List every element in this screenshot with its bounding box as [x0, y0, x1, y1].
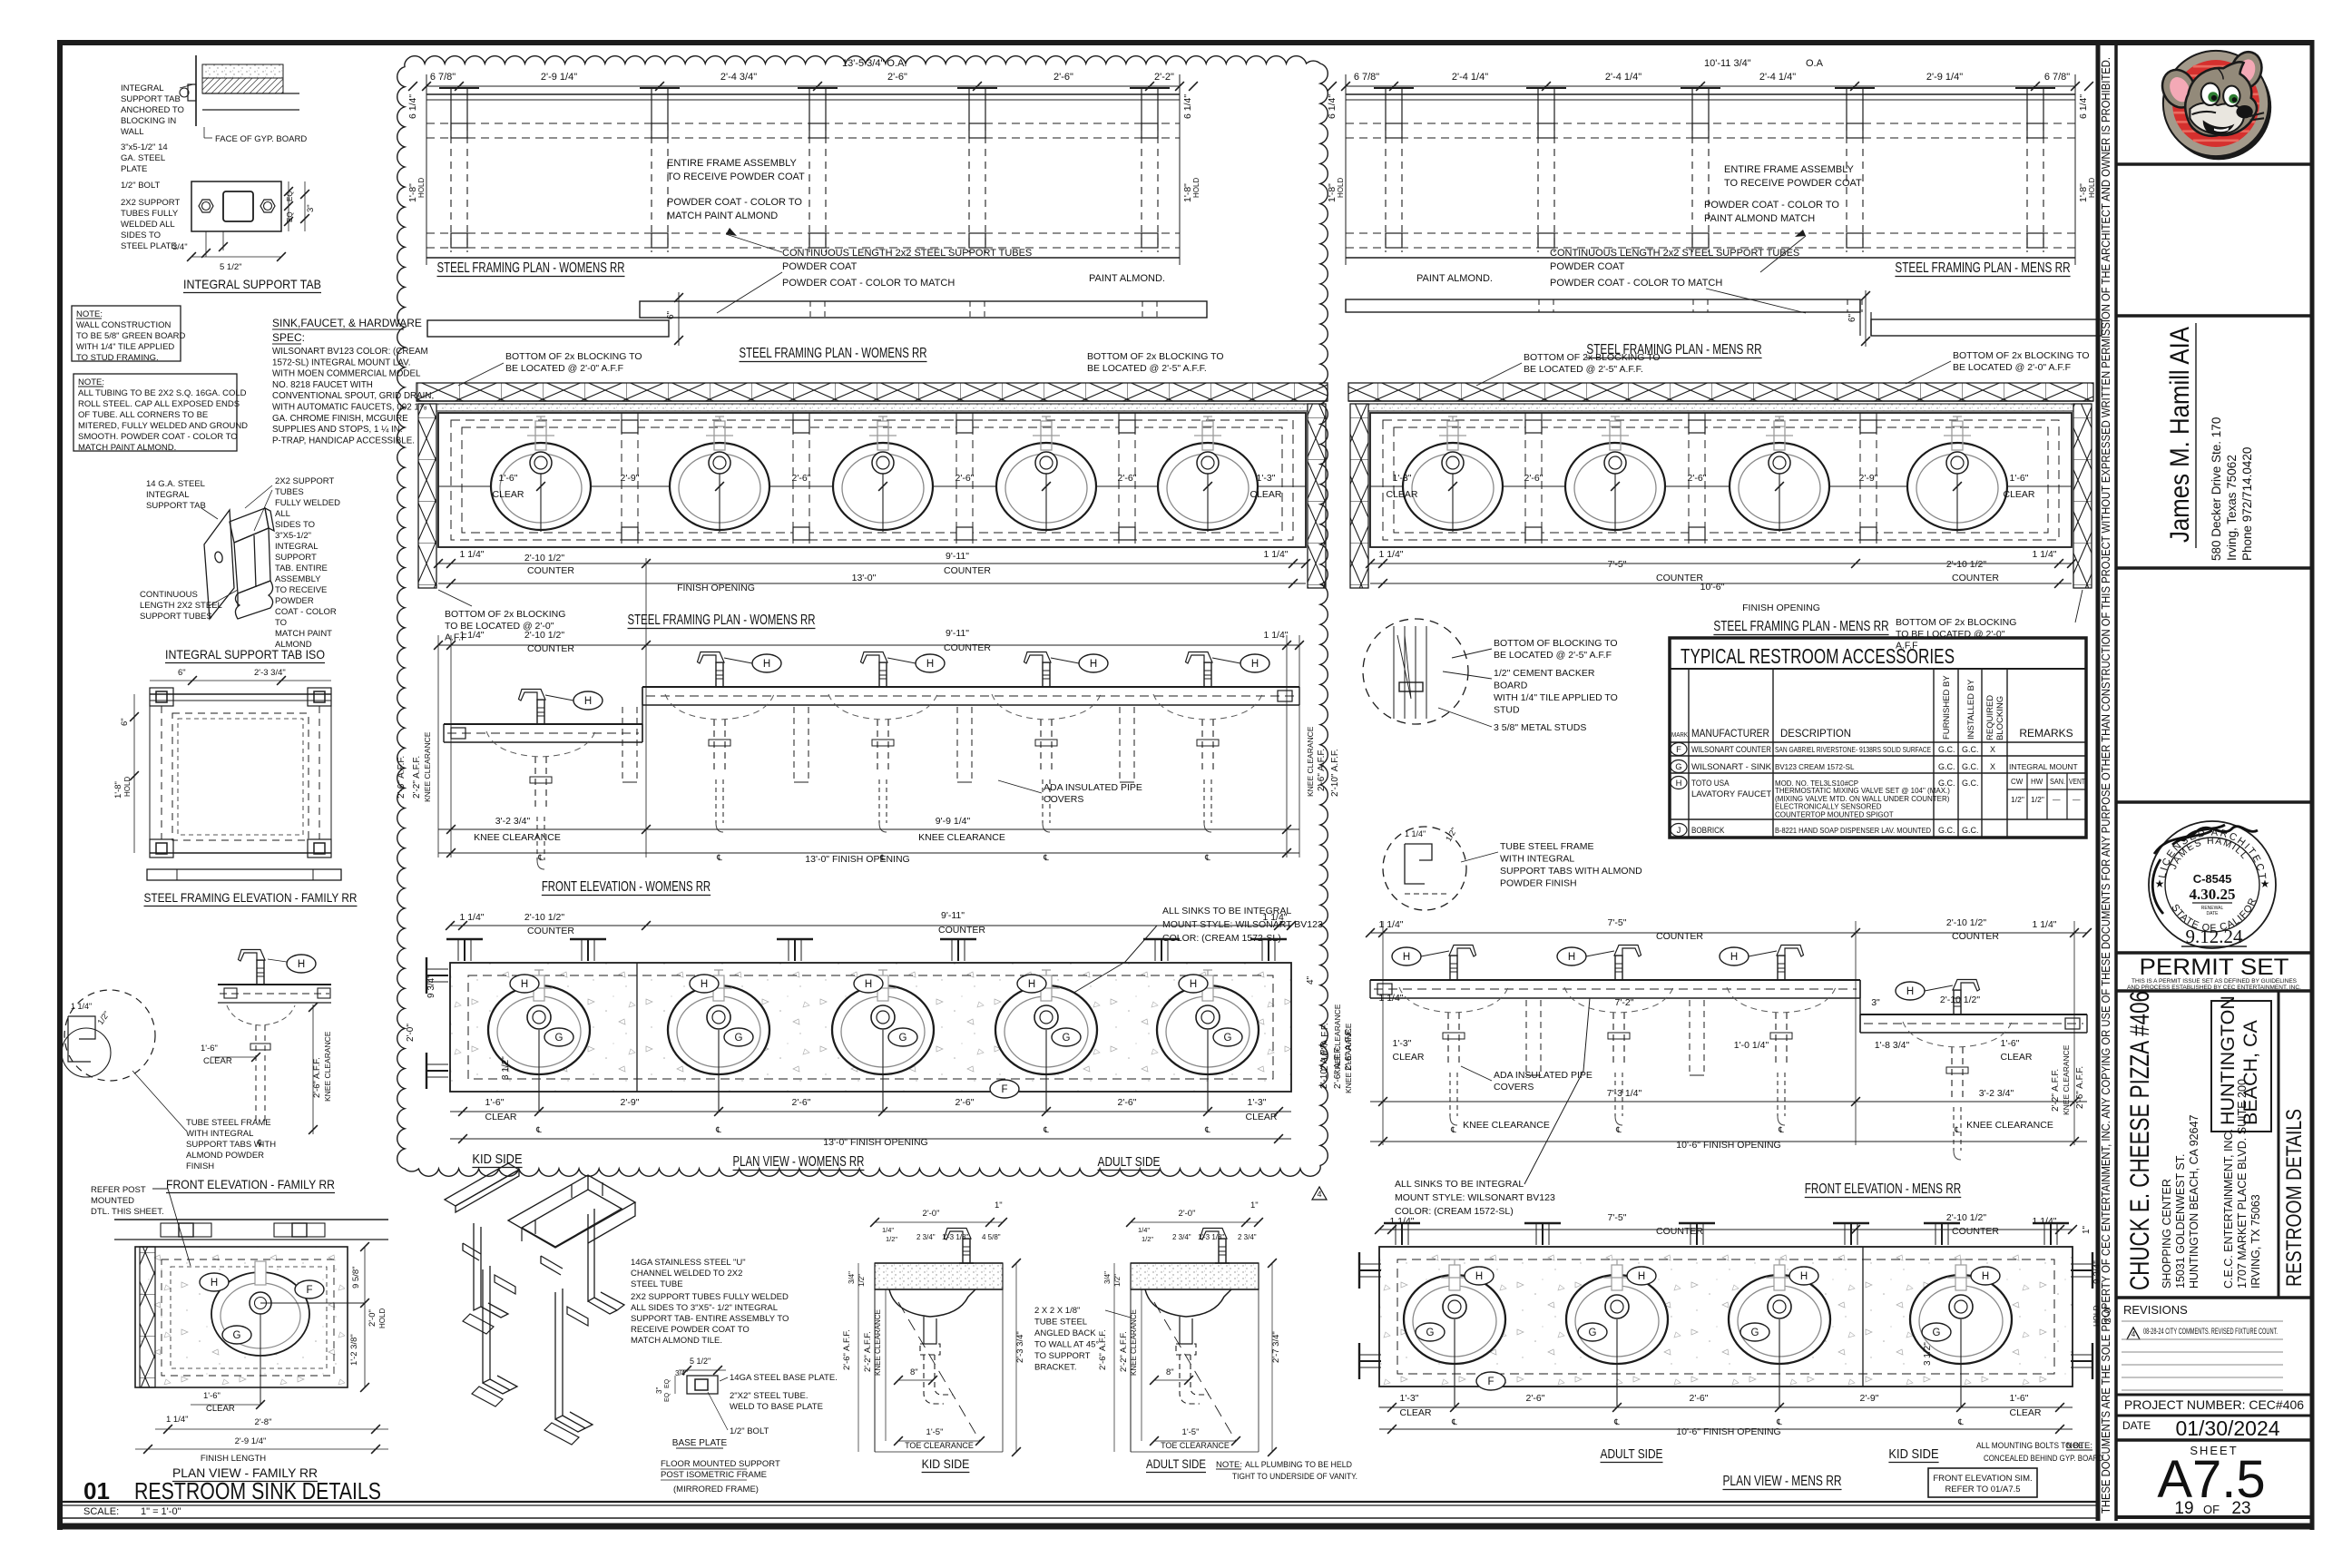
- svg-text:G: G: [1426, 1328, 1435, 1338]
- svg-text:KNEE CLEARANCE: KNEE CLEARANCE: [918, 832, 1005, 843]
- svg-text:01: 01: [83, 1477, 110, 1504]
- svg-text:℄: ℄: [1957, 1417, 1964, 1426]
- svg-text:ASSEMBLY: ASSEMBLY: [275, 574, 321, 584]
- svg-text:COUNTER: COUNTER: [944, 565, 991, 576]
- svg-text:PLAN VIEW - MENS RR: PLAN VIEW - MENS RR: [1722, 1474, 1841, 1489]
- svg-text:WITH MOEN COMMERCIAL MODEL: WITH MOEN COMMERCIAL MODEL: [272, 369, 421, 379]
- svg-text:COUNTER: COUNTER: [938, 925, 985, 936]
- svg-text:★: ★: [2260, 877, 2270, 890]
- svg-text:VENT: VENT: [2069, 778, 2085, 786]
- svg-text:COUNTER: COUNTER: [1656, 573, 1703, 583]
- svg-text:PLAN VIEW - FAMILY RR: PLAN VIEW - FAMILY RR: [172, 1465, 318, 1480]
- svg-text:1 1/4": 1 1/4": [459, 912, 484, 923]
- svg-text:HOLD: HOLD: [123, 777, 132, 797]
- svg-text:580 Decker Drive Ste. 170: 580 Decker Drive Ste. 170: [2210, 417, 2223, 561]
- svg-text:REFER TO 01/A7.5: REFER TO 01/A7.5: [1945, 1485, 2020, 1494]
- svg-text:CLEAR: CLEAR: [2003, 489, 2034, 500]
- svg-text:BOTTOM OF 2x BLOCKING TO: BOTTOM OF 2x BLOCKING TO: [1524, 352, 1661, 363]
- svg-text:H: H: [1090, 659, 1097, 670]
- svg-text:SCALE:: SCALE:: [83, 1506, 119, 1517]
- svg-text:G: G: [735, 1033, 743, 1044]
- svg-text:4.30.25: 4.30.25: [2190, 886, 2236, 903]
- svg-text:6 1/4": 6 1/4": [1327, 94, 1338, 119]
- svg-text:1": 1": [2082, 1225, 2092, 1234]
- svg-text:REQUIRED: REQUIRED: [1985, 695, 1995, 740]
- svg-text:FRONT ELEVATION - MENS RR: FRONT ELEVATION - MENS RR: [1805, 1181, 1962, 1197]
- svg-text:BLOCKING IN: BLOCKING IN: [121, 116, 176, 126]
- svg-text:℄: ℄: [535, 1125, 542, 1134]
- svg-text:COUNTER: COUNTER: [1952, 573, 1999, 583]
- svg-text:BE LOCATED @ 2'-0" A.F.F: BE LOCATED @ 2'-0" A.F.F: [505, 363, 623, 374]
- svg-text:CLEAR: CLEAR: [203, 1056, 232, 1066]
- svg-text:2 3/4": 2 3/4": [1238, 1233, 1257, 1241]
- svg-text:KID SIDE: KID SIDE: [922, 1457, 970, 1471]
- svg-text:STEEL FRAMING PLAN - WOMENS RR: STEEL FRAMING PLAN - WOMENS RR: [437, 260, 625, 276]
- svg-text:CONCEALED BEHIND GYP. BOARD: CONCEALED BEHIND GYP. BOARD: [1984, 1454, 2103, 1464]
- svg-text:CLEAR: CLEAR: [1399, 1407, 1431, 1418]
- svg-text:9.12.24: 9.12.24: [2186, 926, 2244, 947]
- svg-text:NOTE:: NOTE:: [2066, 1441, 2092, 1451]
- svg-text:1 1/4": 1 1/4": [1378, 993, 1403, 1004]
- svg-text:1'-6": 1'-6": [201, 1044, 218, 1053]
- svg-text:2 3/4": 2 3/4": [1172, 1233, 1191, 1241]
- svg-text:H: H: [1676, 779, 1682, 789]
- svg-text:LAVATORY FAUCET: LAVATORY FAUCET: [1691, 789, 1771, 799]
- svg-text:INTEGRAL: INTEGRAL: [146, 490, 190, 500]
- svg-text:EQ: EQ: [664, 1392, 671, 1402]
- svg-text:G: G: [1063, 1033, 1071, 1044]
- svg-text:℄: ℄: [1451, 1417, 1457, 1426]
- svg-text:KID SIDE: KID SIDE: [472, 1151, 522, 1167]
- svg-text:19: 19: [2174, 1499, 2193, 1518]
- svg-text:3 1/2": 3 1/2": [1923, 1342, 1933, 1366]
- svg-text:MOUNT STYLE: WILSONART BV123: MOUNT STYLE: WILSONART BV123: [1162, 919, 1323, 930]
- svg-text:KNEE CLEARANCE: KNEE CLEARANCE: [2062, 1044, 2071, 1115]
- svg-text:2'-3 3/4": 2'-3 3/4": [1015, 1331, 1025, 1363]
- svg-text:DATE: DATE: [2122, 1419, 2151, 1432]
- svg-text:2'-10 1/2": 2'-10 1/2": [524, 630, 565, 641]
- svg-text:1707 MARKET PLACE BLVD. SUITE: 1707 MARKET PLACE BLVD. SUITE 200: [2236, 1079, 2249, 1289]
- svg-text:H: H: [1251, 659, 1259, 670]
- svg-text:9 3/4": 9 3/4": [2092, 1260, 2102, 1284]
- svg-text:COVERS: COVERS: [1494, 1082, 1534, 1093]
- svg-text:2'-10" A.F.F.: 2'-10" A.F.F.: [1320, 1023, 1330, 1071]
- svg-text:CLEAR: CLEAR: [206, 1404, 235, 1414]
- svg-text:3 5/8" METAL STUDS: 3 5/8" METAL STUDS: [1494, 722, 1586, 733]
- svg-text:2'-6": 2'-6": [792, 1097, 811, 1108]
- svg-text:H: H: [1638, 1271, 1645, 1282]
- svg-text:ADULT SIDE: ADULT SIDE: [1098, 1154, 1161, 1170]
- svg-text:01/30/2024: 01/30/2024: [2175, 1416, 2279, 1440]
- svg-text:3": 3": [306, 204, 316, 212]
- svg-text:CHUCK E. CHEESE PIZZA #406: CHUCK E. CHEESE PIZZA #406: [2125, 991, 2155, 1290]
- svg-text:2'-6" A.F.F.: 2'-6" A.F.F.: [1344, 1028, 1354, 1071]
- svg-text:2'-6": 2'-6": [887, 72, 907, 83]
- svg-text:4": 4": [1306, 975, 1316, 985]
- svg-text:13'-5 3/4" O.A.: 13'-5 3/4" O.A.: [842, 58, 906, 69]
- svg-text:COAT - COLOR: COAT - COLOR: [275, 607, 337, 617]
- svg-text:7'-5": 7'-5": [1608, 559, 1627, 570]
- svg-text:2'-6" A.F.F.: 2'-6" A.F.F.: [842, 1329, 852, 1370]
- svg-text:1 1/4": 1 1/4": [1405, 829, 1426, 838]
- svg-text:INTEGRAL: INTEGRAL: [275, 542, 318, 552]
- svg-text:BOTTOM OF 2x BLOCKING: BOTTOM OF 2x BLOCKING: [1896, 617, 2016, 628]
- svg-text:9'-11": 9'-11": [941, 910, 965, 921]
- svg-text:ALL SIDES TO 3"X5"- 1/2" INTEG: ALL SIDES TO 3"X5"- 1/2" INTEGRAL: [631, 1303, 778, 1313]
- svg-text:1/2": 1/2": [2011, 795, 2024, 804]
- svg-text:2'-0": 2'-0": [923, 1209, 940, 1219]
- svg-text:HOLD: HOLD: [417, 178, 426, 198]
- svg-text:2X2 SUPPORT: 2X2 SUPPORT: [121, 198, 180, 208]
- svg-text:IRVING, TX 75063: IRVING, TX 75063: [2249, 1194, 2262, 1289]
- svg-text:2'-4 3/4": 2'-4 3/4": [720, 72, 757, 83]
- svg-text:2X2 SUPPORT: 2X2 SUPPORT: [275, 476, 334, 486]
- svg-text:THESE DOCUMENTS ARE THE SOLE P: THESE DOCUMENTS ARE THE SOLE PROPERTY OF…: [2099, 57, 2112, 1514]
- svg-text:C.E.C. ENTERTAINMENT, INC.: C.E.C. ENTERTAINMENT, INC.: [2222, 1129, 2235, 1289]
- svg-text:6 1/4": 6 1/4": [2078, 94, 2089, 119]
- svg-text:1'-6": 1'-6": [2010, 473, 2029, 484]
- svg-text:STEEL FRAMING PLAN - WOMENS RR: STEEL FRAMING PLAN - WOMENS RR: [740, 346, 927, 361]
- svg-text:TO STUD FRAMING.: TO STUD FRAMING.: [76, 353, 159, 363]
- svg-text:WITH 1/4" TILE APPLIED: WITH 1/4" TILE APPLIED: [76, 342, 174, 352]
- svg-text:(MIRRORED FRAME): (MIRRORED FRAME): [673, 1485, 759, 1494]
- svg-text:4: 4: [1317, 1190, 1321, 1199]
- svg-text:3/4": 3/4": [1103, 1271, 1112, 1284]
- svg-text:KNEE CLEARANCE: KNEE CLEARANCE: [1463, 1120, 1550, 1131]
- svg-text:MANUFACTURER: MANUFACTURER: [1691, 727, 1769, 740]
- svg-text:MITERED, FULLY WELDED AND GROU: MITERED, FULLY WELDED AND GROUND: [78, 421, 248, 431]
- svg-text:MATCH ALMOND TILE.: MATCH ALMOND TILE.: [631, 1336, 722, 1346]
- svg-text:H: H: [1906, 986, 1914, 997]
- svg-text:ALL SINKS TO BE INTEGRAL: ALL SINKS TO BE INTEGRAL: [1395, 1179, 1524, 1190]
- svg-text:6 1/4": 6 1/4": [1182, 94, 1193, 119]
- svg-text:2'-6": 2'-6": [955, 1097, 975, 1108]
- svg-text:℄: ℄: [715, 1125, 721, 1134]
- svg-text:HOLD: HOLD: [1337, 178, 1345, 198]
- svg-text:ENTIRE FRAME ASSEMBLY: ENTIRE FRAME ASSEMBLY: [667, 158, 797, 169]
- svg-text:RECEIVE POWDER COAT TO: RECEIVE POWDER COAT TO: [631, 1325, 750, 1335]
- svg-text:COUNTER: COUNTER: [944, 642, 991, 653]
- svg-text:3": 3": [655, 1387, 663, 1394]
- svg-text:FRONT ELEVATION - FAMILY RR: FRONT ELEVATION - FAMILY RR: [166, 1177, 335, 1191]
- svg-text:PROJECT NUMBER: CEC#406: PROJECT NUMBER: CEC#406: [2124, 1397, 2304, 1412]
- svg-text:1'-3": 1'-3": [1248, 1097, 1267, 1108]
- svg-text:1'-6": 1'-6": [499, 473, 518, 484]
- svg-text:4 5/8": 4 5/8": [982, 1233, 1001, 1241]
- svg-text:CLEAR: CLEAR: [1392, 1052, 1424, 1063]
- svg-text:POWDER COAT - COLOR TO: POWDER COAT - COLOR TO: [667, 197, 802, 208]
- svg-text:2"X2" STEEL TUBE.: 2"X2" STEEL TUBE.: [730, 1391, 808, 1401]
- svg-text:ADULT SIDE: ADULT SIDE: [1601, 1446, 1663, 1462]
- svg-text:BE LOCATED @ 2'-5" A.F.F.: BE LOCATED @ 2'-5" A.F.F.: [1087, 363, 1207, 374]
- svg-text:WITH AUTOMATIC FAUCETS, 002 1⅞: WITH AUTOMATIC FAUCETS, 002 1⅞: [272, 403, 427, 413]
- svg-text:BLOCKING: BLOCKING: [1995, 696, 2005, 740]
- svg-text:1 1/4": 1 1/4": [1378, 919, 1403, 930]
- svg-text:1 1/4": 1 1/4": [1263, 630, 1288, 641]
- svg-text:H: H: [584, 696, 592, 707]
- svg-text:KNEE CLEARANCE: KNEE CLEARANCE: [1333, 1004, 1342, 1074]
- svg-text:GA. CHROME FINISH, MCGUIRE: GA. CHROME FINISH, MCGUIRE: [272, 414, 408, 424]
- svg-text:2'-6": 2'-6": [1053, 72, 1073, 83]
- svg-text:POST ISOMETRIC FRAME: POST ISOMETRIC FRAME: [661, 1470, 767, 1480]
- svg-text:1'-3 1/8": 1'-3 1/8": [1198, 1233, 1224, 1241]
- svg-text:STEEL PLATE.: STEEL PLATE.: [121, 241, 179, 251]
- svg-text:CONTINUOUS LENGTH 2x2 STEEL S: CONTINUOUS LENGTH 2x2 STEEL SUPPORT TUBE…: [782, 248, 1032, 259]
- svg-text:PAINT ALMOND.: PAINT ALMOND.: [1416, 273, 1493, 284]
- svg-text:15031 GOLDENWEST ST.: 15031 GOLDENWEST ST.: [2174, 1154, 2187, 1289]
- svg-text:1'-0 1/4": 1'-0 1/4": [1734, 1040, 1769, 1051]
- svg-text:STEEL FRAMING ELEVATION - FAMI: STEEL FRAMING ELEVATION - FAMILY RR: [144, 891, 358, 905]
- svg-text:CLEAR: CLEAR: [485, 1112, 516, 1122]
- svg-text:BOTTOM OF 2x BLOCKING: BOTTOM OF 2x BLOCKING: [445, 609, 565, 620]
- svg-text:BOTTOM OF 2x BLOCKING TO: BOTTOM OF 2x BLOCKING TO: [1087, 351, 1224, 362]
- svg-text:INTEGRAL MOUNT: INTEGRAL MOUNT: [2009, 762, 2078, 771]
- svg-text:6": 6": [1847, 313, 1857, 322]
- svg-text:POWDER COAT - COLOR TO MATCH: POWDER COAT - COLOR TO MATCH: [782, 278, 955, 289]
- svg-text:FACE OF GYP. BOARD: FACE OF GYP. BOARD: [215, 134, 307, 144]
- svg-text:TUBES: TUBES: [275, 487, 304, 497]
- svg-text:TO RECEIVE: TO RECEIVE: [275, 585, 327, 595]
- svg-text:2'-8": 2'-8": [255, 1417, 272, 1427]
- svg-text:G.C.: G.C.: [1938, 826, 1955, 835]
- svg-text:BOTTOM OF BLOCKING TO: BOTTOM OF BLOCKING TO: [1494, 638, 1618, 649]
- svg-text:7'-5": 7'-5": [1608, 1212, 1627, 1223]
- svg-text:J: J: [1677, 826, 1681, 836]
- svg-text:2'-10 1/2": 2'-10 1/2": [1946, 917, 1987, 928]
- svg-text:RESTROOM DETAILS: RESTROOM DETAILS: [2282, 1109, 2307, 1287]
- svg-text:WELD TO BASE PLATE: WELD TO BASE PLATE: [730, 1402, 823, 1412]
- svg-text:PAINT ALMOND.: PAINT ALMOND.: [1089, 273, 1165, 284]
- svg-text:9'-11": 9'-11": [946, 628, 969, 639]
- svg-text:1/2" CEMENT BACKER: 1/2" CEMENT BACKER: [1494, 668, 1595, 679]
- svg-text:EQ: EQ: [286, 211, 294, 222]
- svg-text:POWDER COAT: POWDER COAT: [1550, 261, 1625, 272]
- svg-text:ALL PLUMBING TO BE HELD: ALL PLUMBING TO BE HELD: [1245, 1460, 1352, 1470]
- svg-text:SUPPORT TABS WITH ALMOND: SUPPORT TABS WITH ALMOND: [1500, 866, 1642, 877]
- svg-text:H: H: [1190, 979, 1197, 990]
- svg-text:℄: ℄: [1954, 1125, 1960, 1134]
- svg-text:OF TUBE. ALL CORNERS TO BE: OF TUBE. ALL CORNERS TO BE: [78, 410, 208, 420]
- svg-text:2'-2": 2'-2": [1154, 72, 1174, 83]
- svg-text:EQ: EQ: [664, 1378, 671, 1388]
- svg-text:℄: ℄: [1613, 1417, 1620, 1426]
- svg-text:ANGLED BACK: ANGLED BACK: [1034, 1328, 1096, 1338]
- svg-text:2'-4 1/4": 2'-4 1/4": [1452, 72, 1488, 83]
- svg-text:CONTINUOUS LENGTH 2x2 STEEL S: CONTINUOUS LENGTH 2x2 STEEL SUPPORT TUBE…: [1550, 248, 1799, 259]
- svg-text:TO WALL AT 45°: TO WALL AT 45°: [1034, 1340, 1099, 1350]
- svg-text:TUBE STEEL FRAME: TUBE STEEL FRAME: [186, 1118, 271, 1128]
- svg-text:TUBE STEEL: TUBE STEEL: [1034, 1318, 1087, 1328]
- svg-text:1": 1": [995, 1200, 1003, 1210]
- svg-text:BRACKET.: BRACKET.: [1034, 1363, 1076, 1373]
- svg-text:2'-6" A.F.F.: 2'-6" A.F.F.: [2075, 1066, 2085, 1109]
- svg-text:WITH 1/4" TILE APPLIED TO: WITH 1/4" TILE APPLIED TO: [1494, 692, 1618, 703]
- svg-text:FURNISHED BY: FURNISHED BY: [1942, 675, 1952, 740]
- svg-text:G: G: [1589, 1328, 1597, 1338]
- svg-text:FULLY WELDED: FULLY WELDED: [275, 498, 340, 508]
- svg-text:FRONT ELEVATION SIM.: FRONT ELEVATION SIM.: [1933, 1474, 2032, 1484]
- svg-text:2'-0": 2'-0": [367, 1309, 377, 1327]
- svg-text:2'-6": 2'-6": [1524, 473, 1543, 484]
- svg-text:2'-6" A.F.F.: 2'-6" A.F.F.: [1098, 1329, 1108, 1370]
- svg-text:G: G: [1751, 1328, 1759, 1338]
- svg-text:H: H: [211, 1278, 218, 1289]
- svg-text:H: H: [763, 659, 770, 670]
- svg-text:G.C.: G.C.: [1938, 762, 1955, 771]
- svg-text:ANCHORED TO: ANCHORED TO: [121, 105, 184, 115]
- svg-text:Phone 972/714.0420: Phone 972/714.0420: [2240, 447, 2254, 561]
- svg-text:(MIXING VALVE MTD. ON WALL UND: (MIXING VALVE MTD. ON WALL UNDER COUNTER…: [1775, 795, 1950, 803]
- svg-text:COUNTERTOP MOUNTED SPIGOT: COUNTERTOP MOUNTED SPIGOT: [1775, 810, 1894, 818]
- svg-text:★: ★: [2155, 877, 2165, 890]
- svg-text:1 1/4": 1 1/4": [1378, 549, 1403, 560]
- svg-text:STEEL FRAMING PLAN - MENS RR: STEEL FRAMING PLAN - MENS RR: [1895, 260, 2070, 276]
- svg-text:2 3/4": 2 3/4": [916, 1233, 936, 1241]
- svg-text:1 1/4": 1 1/4": [2032, 919, 2056, 930]
- svg-text:SUPPORT TAB- ENTIRE ASSEMBLY T: SUPPORT TAB- ENTIRE ASSEMBLY TO: [631, 1314, 789, 1324]
- svg-text:CLEAR: CLEAR: [1249, 489, 1281, 500]
- svg-text:POWDER COAT - COLOR TO MATC: POWDER COAT - COLOR TO MATCH: [1550, 278, 1722, 289]
- svg-text:HOLD: HOLD: [2088, 178, 2096, 198]
- svg-text:BOTTOM OF 2x BLOCKING TO: BOTTOM OF 2x BLOCKING TO: [1953, 350, 2090, 361]
- svg-text:3/4": 3/4": [172, 242, 188, 252]
- svg-text:23: 23: [2231, 1499, 2250, 1518]
- svg-text:H: H: [1475, 1271, 1483, 1282]
- svg-text:X: X: [1990, 762, 1995, 771]
- svg-text:1 1/4": 1 1/4": [1262, 912, 1287, 923]
- svg-text:POWDER COAT - COLOR TO: POWDER COAT - COLOR TO: [1704, 200, 1839, 211]
- svg-text:F: F: [1676, 745, 1681, 755]
- svg-text:CLEAR: CLEAR: [2000, 1052, 2032, 1063]
- svg-text:COUNTER: COUNTER: [527, 926, 574, 936]
- svg-text:STUD: STUD: [1494, 705, 1520, 716]
- svg-text:ENTIRE FRAME ASSEMBLY: ENTIRE FRAME ASSEMBLY: [1724, 164, 1854, 175]
- svg-text:F: F: [306, 1285, 312, 1296]
- svg-text:G: G: [1933, 1328, 1941, 1338]
- svg-text:THIS IS A PERMIT ISSUE SET AS: THIS IS A PERMIT ISSUE SET AS DEFINED BY…: [2131, 978, 2298, 985]
- svg-text:2'-6": 2'-6": [955, 473, 975, 484]
- svg-text:TUBES FULLY: TUBES FULLY: [121, 209, 179, 219]
- svg-text:BASE PLATE: BASE PLATE: [672, 1438, 728, 1448]
- svg-text:2'-6" A.F.F.: 2'-6" A.F.F.: [397, 756, 407, 799]
- svg-text:KNEE CLEARANCE: KNEE CLEARANCE: [1306, 726, 1315, 797]
- svg-text:1'-8": 1'-8": [113, 781, 123, 799]
- svg-text:2'-0": 2'-0": [406, 1024, 416, 1042]
- svg-text:1 1/4": 1 1/4": [166, 1415, 189, 1425]
- svg-text:1 1/4": 1 1/4": [2032, 549, 2056, 560]
- svg-text:2'-6": 2'-6": [1526, 1393, 1545, 1404]
- svg-text:PERMIT SET: PERMIT SET: [2140, 955, 2289, 980]
- svg-text:CHANNEL WELDED TO 2X2: CHANNEL WELDED TO 2X2: [631, 1269, 742, 1279]
- svg-text:2'-9": 2'-9": [1859, 473, 1878, 484]
- svg-text:NOTE:: NOTE:: [1216, 1460, 1242, 1470]
- svg-text:2'-2" A.F.F.: 2'-2" A.F.F.: [412, 756, 422, 799]
- svg-text:℄: ℄: [1450, 1125, 1456, 1134]
- svg-text:℄: ℄: [716, 853, 722, 862]
- svg-text:SIDES TO: SIDES TO: [121, 230, 161, 240]
- svg-text:H: H: [1982, 1271, 1989, 1282]
- svg-text:1'-5": 1'-5": [1182, 1427, 1200, 1437]
- svg-text:2'-9": 2'-9": [621, 1097, 640, 1108]
- svg-text:SUPPORT: SUPPORT: [275, 553, 317, 563]
- svg-text:SIDES TO: SIDES TO: [275, 520, 315, 530]
- svg-text:℄: ℄: [1778, 1125, 1784, 1134]
- svg-text:WILSONART - SINK: WILSONART - SINK: [1691, 762, 1771, 771]
- svg-text:H: H: [926, 659, 934, 670]
- svg-text:CW: CW: [2011, 778, 2024, 786]
- svg-text:10'-6" FINISH OPENING: 10'-6" FINISH OPENING: [1676, 1426, 1780, 1437]
- svg-text:13'-0" FINISH OPENING: 13'-0" FINISH OPENING: [805, 854, 909, 865]
- svg-text:3 1/2": 3 1/2": [501, 1056, 511, 1080]
- svg-text:1'-5": 1'-5": [926, 1427, 944, 1437]
- svg-text:2'-6" A.F.F.: 2'-6" A.F.F.: [1317, 749, 1327, 791]
- svg-text:1": 1": [1250, 1200, 1259, 1210]
- svg-text:2'-6": 2'-6": [1690, 1393, 1709, 1404]
- svg-text:3": 3": [1871, 997, 1880, 1008]
- svg-text:SAN GABRIEL RIVERSTONE- 9138RS: SAN GABRIEL RIVERSTONE- 9138RS SOLID SUR…: [1775, 746, 1931, 754]
- svg-text:TOE CLEARANCE: TOE CLEARANCE: [1161, 1441, 1230, 1450]
- svg-text:INSTALLED BY: INSTALLED BY: [1966, 679, 1976, 740]
- svg-text:TOE CLEARANCE: TOE CLEARANCE: [905, 1441, 974, 1450]
- svg-text:HW: HW: [2031, 778, 2043, 786]
- svg-text:℄: ℄: [1615, 1125, 1622, 1134]
- svg-text:6": 6": [178, 668, 186, 678]
- svg-text:1572-SL) INTEGRAL MOUNT LAV.: 1572-SL) INTEGRAL MOUNT LAV.: [272, 358, 410, 367]
- svg-text:9'-9 1/4": 9'-9 1/4": [936, 816, 971, 827]
- svg-text:1/4": 1/4": [1138, 1226, 1150, 1234]
- svg-text:STEEL FRAMING PLAN - MENS RR: STEEL FRAMING PLAN - MENS RR: [1713, 619, 1888, 634]
- svg-text:1/2": 1/2": [2031, 795, 2044, 804]
- svg-text:08-28-24 CITY COMMENTS. REVI: 08-28-24 CITY COMMENTS. REVISED FIXTURE …: [2143, 1327, 2278, 1337]
- svg-text:1'-6": 1'-6": [2010, 1393, 2029, 1404]
- svg-text:ADULT SIDE: ADULT SIDE: [1146, 1457, 1206, 1471]
- svg-text:REVISIONS: REVISIONS: [2123, 1303, 2188, 1317]
- svg-text:2 X 2 X 1/8": 2 X 2 X 1/8": [1034, 1306, 1080, 1316]
- svg-text:KNEE CLEARANCE: KNEE CLEARANCE: [423, 731, 432, 802]
- svg-text:1'-6": 1'-6": [2001, 1038, 2020, 1049]
- svg-text:FINISH OPENING: FINISH OPENING: [677, 583, 755, 593]
- svg-text:7'-5": 7'-5": [1608, 917, 1627, 928]
- svg-text:KNEE CLEARANCE: KNEE CLEARANCE: [474, 832, 561, 843]
- svg-text:TAB. ENTIRE: TAB. ENTIRE: [275, 563, 328, 573]
- svg-text:1/4": 1/4": [882, 1226, 894, 1234]
- svg-text:1 1/4": 1 1/4": [71, 1002, 92, 1011]
- svg-text:TO RECEIVE POWDER COAT: TO RECEIVE POWDER COAT: [667, 171, 805, 182]
- svg-text:SUPPLIES AND STOPS, 1 ¼ IN.: SUPPLIES AND STOPS, 1 ¼ IN.: [272, 425, 403, 435]
- svg-text:SUPPORT TAB: SUPPORT TAB: [121, 94, 181, 104]
- svg-text:MARK: MARK: [1671, 730, 1688, 739]
- svg-text:WILSONART COUNTER: WILSONART COUNTER: [1691, 745, 1771, 754]
- svg-text:INTEGRAL SUPPORT TAB ISO: INTEGRAL SUPPORT TAB ISO: [165, 647, 325, 661]
- svg-text:COVERS: COVERS: [1044, 794, 1083, 805]
- svg-text:PLATE: PLATE: [121, 164, 147, 174]
- svg-text:1'-3": 1'-3": [1400, 1393, 1419, 1404]
- svg-text:6 7/8": 6 7/8": [2044, 72, 2070, 83]
- svg-text:ALL: ALL: [275, 509, 290, 519]
- svg-text:3"x5-1/2" 14: 3"x5-1/2" 14: [121, 142, 168, 152]
- svg-text:POWDER COAT: POWDER COAT: [782, 261, 857, 272]
- svg-text:℄: ℄: [1204, 1125, 1210, 1134]
- svg-text:1 1/4": 1 1/4": [1389, 1216, 1414, 1227]
- svg-text:℄: ℄: [537, 853, 544, 862]
- svg-text:2'-10 1/2": 2'-10 1/2": [524, 912, 565, 923]
- svg-text:BOBRICK: BOBRICK: [1691, 826, 1724, 835]
- svg-text:6 1/4": 6 1/4": [407, 94, 418, 119]
- svg-text:H: H: [1730, 952, 1738, 963]
- svg-text:1 1/4": 1 1/4": [2032, 1216, 2056, 1227]
- svg-text:POWDER FINISH: POWDER FINISH: [1500, 878, 1577, 889]
- svg-text:4: 4: [2131, 1330, 2136, 1338]
